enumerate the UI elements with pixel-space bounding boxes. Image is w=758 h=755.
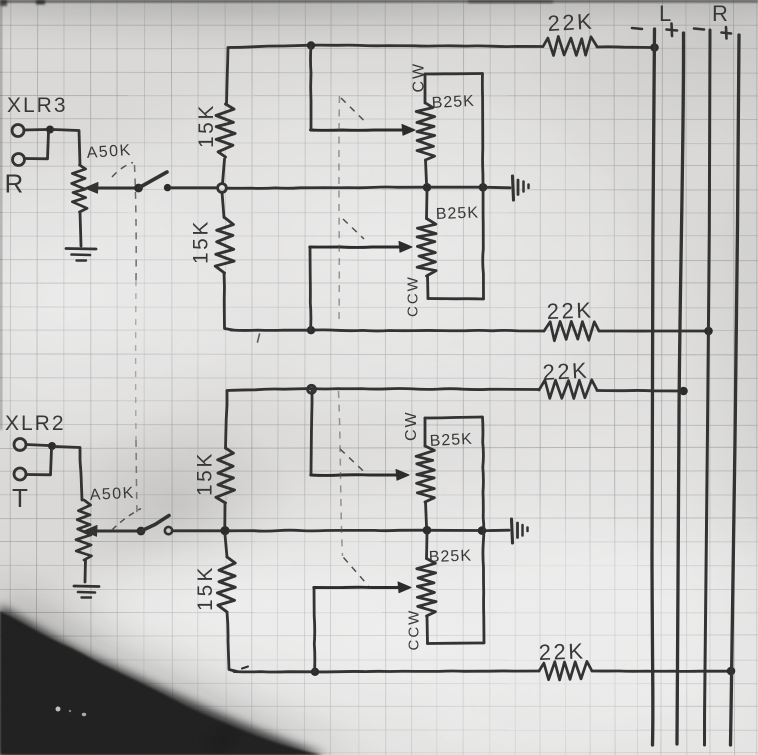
- wire B25K upper CW lead ch1: [424, 74, 427, 103]
- junction dot bottom wire ch1: [307, 326, 315, 334]
- bottom wire ch2: [234, 667, 539, 673]
- switch blade ch2: [140, 516, 169, 532]
- wire pin1 to junction XLR2: [26, 445, 48, 446]
- vertical of wiper feed ch1 corner: [310, 127, 313, 130]
- wire pin1 to junction: [24, 128, 47, 131]
- label B25K upper ch1: [431, 93, 475, 112]
- resistor 15K lower ch2: [217, 557, 235, 612]
- junction dot at XLR2: [48, 442, 56, 450]
- wire node to 15K lower ch1: [222, 192, 224, 217]
- wire top-left corner to 15K upper ch1: [227, 48, 229, 104]
- wire switch to node ch1: [171, 186, 218, 189]
- switch pivot dot ch2: [137, 527, 146, 536]
- resistor 22K top ch2: [539, 380, 597, 399]
- wire to ground rail ch2: [431, 529, 478, 532]
- resistor 22K bottom ch1: [544, 321, 599, 340]
- white speck in shadow 2: [82, 713, 86, 716]
- resistor 15K upper ch2: [216, 448, 235, 503]
- photo shadow soft edge: [0, 605, 327, 755]
- wire 15K upper to node ch2: [223, 503, 226, 527]
- ground symbol A50K ch2: [74, 586, 99, 598]
- wire 22K to bus L+ ch2: [597, 389, 680, 392]
- wire pin2 to junction: [25, 132, 49, 159]
- junction dot B25K middle ch2: [423, 526, 432, 535]
- wiper feed wire lower B25K ch1: [310, 242, 412, 253]
- pot B25K upper body ch1: [416, 103, 435, 160]
- junction dot bottom wire ch2: [311, 668, 319, 676]
- top wire ch2: [227, 388, 539, 390]
- sideways ground symbol ch2: [512, 519, 528, 543]
- junction dot ground rail ch1: [479, 183, 488, 192]
- potentiometer A50K body (ch2): [76, 500, 92, 560]
- bottom wire ch1: [231, 330, 544, 342]
- wire 15K lower to bottom ch2: [227, 612, 237, 672]
- junction dot top wire ch1: [307, 41, 315, 49]
- dashed gang vertical B25K ch2: [339, 391, 343, 556]
- junction dot at XLR3: [46, 126, 54, 134]
- label B25K lower ch1: [436, 205, 480, 223]
- white speck in shadow 3: [69, 710, 71, 712]
- XLR2 pin 2: [14, 468, 26, 480]
- sideways ground symbol ch1: [513, 176, 529, 200]
- label minus (L-): [632, 28, 642, 29]
- junction dot 15K node ch2: [220, 526, 229, 535]
- right rail of B25K block ch2: [483, 417, 485, 643]
- pot B25K lower body ch2: [417, 559, 436, 617]
- page left edge shade: [0, 0, 2, 430]
- wiper feed wire upper B25K ch2: [311, 470, 409, 481]
- dashed diagonal to upper wiper ch2: [340, 449, 367, 474]
- label 15K upper ch1: [195, 103, 218, 148]
- dashed gang arc at A50K switch ch1: [112, 163, 133, 178]
- page corner blob top-left: [0, 0, 7, 6]
- wire CW to right rail ch2: [425, 417, 482, 418]
- wiper arrow A50K ch1: [85, 183, 136, 194]
- dashed gang arc at A50K switch ch2: [112, 509, 141, 531]
- junction dot ground rail ch2: [478, 526, 487, 535]
- potentiometer A50K body (ch1): [72, 165, 87, 212]
- wire CCW lead lower B25K ch2: [426, 616, 429, 644]
- label CW ch1: [411, 62, 428, 93]
- wiper feed wire lower B25K ch2: [314, 582, 411, 593]
- wire middle to B25K lower ch2: [425, 535, 428, 559]
- bus line L- (1st vertical): [652, 29, 655, 745]
- label A50K (ch1): [86, 142, 132, 162]
- dashed diagonal to lower wiper ch2: [344, 558, 369, 587]
- ground symbol A50K ch1: [66, 249, 96, 261]
- wire to ground symbol ch1: [487, 186, 510, 189]
- wire middle to B25K lower ch1: [425, 191, 428, 219]
- switch pivot dot ch1: [134, 184, 143, 193]
- label 22K bottom ch1: [546, 297, 594, 324]
- pot B25K lower body ch1: [417, 219, 436, 277]
- dashed diagonal to lower wiper ch1: [343, 219, 364, 239]
- label B25K lower ch2: [429, 548, 473, 566]
- wire junction down to wiper feed ch1: [309, 46, 312, 129]
- wire pot bottom to ground (ch1): [80, 212, 81, 246]
- junction dot top wire ch2 (open ring): [308, 385, 316, 393]
- wire 22K to bus L-: [597, 45, 651, 49]
- label R (ring): [5, 169, 25, 199]
- label 22K top ch1: [547, 9, 595, 36]
- connector label XLR2: [5, 412, 66, 435]
- pot B25K upper body ch2: [416, 446, 434, 502]
- switch contact open circle ch2: [165, 527, 172, 534]
- wire B25K upper CW lead ch2: [424, 418, 427, 446]
- open node circle (15K junction ch1): [218, 184, 227, 193]
- wiper arrow A50K ch2: [84, 526, 137, 537]
- wire junction to pot A50K top ch2: [55, 447, 82, 501]
- label CCW ch1: [405, 275, 422, 317]
- wire B25K upper to middle ch1: [426, 160, 427, 184]
- page top edge dark strip: [0, 0, 758, 3]
- wire B25K upper to middle ch2: [426, 502, 427, 526]
- label plus (R+): [722, 27, 732, 39]
- label A50K (ch2): [89, 485, 135, 504]
- wire 22K to bus R- ch1: [599, 330, 705, 333]
- wire corner to 15K upper ch2: [226, 391, 228, 448]
- label CCW ch2: [406, 609, 423, 651]
- resistor 15K lower ch1: [215, 218, 234, 274]
- resistor 22K bottom ch2: [539, 661, 592, 680]
- white speck in shadow 1: [56, 707, 61, 712]
- label 22K bottom ch2: [538, 638, 586, 665]
- label R (bus): [712, 1, 729, 26]
- bus line R- (3rd vertical): [705, 30, 711, 745]
- wire bottom of block ch2: [428, 642, 485, 645]
- photo shadow core (black corner): [0, 611, 322, 755]
- resistor 15K upper ch1: [216, 104, 235, 157]
- middle wire ch2 (node to pots): [230, 529, 423, 533]
- wire junction down to wiper feed ch2: [311, 389, 312, 474]
- wire switch to node ch2: [173, 529, 220, 532]
- wiper feed vertical lower B25K ch1: [309, 248, 313, 330]
- XLR3 pin 1: [12, 125, 24, 137]
- junction dot on R+ bus: [727, 667, 736, 676]
- wiper feed wire upper B25K ch1: [311, 125, 416, 136]
- connector label XLR3: [7, 94, 68, 117]
- wire CW to right rail ch1: [425, 72, 482, 75]
- bus line L+ (2nd vertical): [677, 33, 684, 744]
- label plus (L+): [667, 24, 678, 37]
- junction dot on R- bus: [704, 327, 713, 336]
- dashed gang vertical B25K ch1: [338, 96, 341, 321]
- wire 15K lower to bottom ch1: [224, 273, 233, 330]
- wire 15K upper to node ch1: [223, 159, 225, 184]
- wire pot bottom to ground (ch2): [84, 560, 87, 582]
- wire 22K to bus R+ ch2: [592, 670, 727, 673]
- label 15K lower ch2: [194, 565, 217, 611]
- switch contact dot ch1: [164, 184, 171, 191]
- photo shadow halo (bottom-left): [0, 582, 365, 755]
- label B25K upper ch2: [429, 431, 473, 450]
- right rail of B25K block ch1: [482, 74, 483, 299]
- XLR3 pin 2: [13, 154, 25, 166]
- junction dot B25K middle ch1: [423, 183, 432, 192]
- wire to ground rail ch1: [431, 186, 479, 189]
- wire to ground symbol ch2: [487, 529, 510, 532]
- label minus (R-): [694, 29, 704, 30]
- junction dot on L- bus: [650, 43, 659, 52]
- wire CCW lead lower B25K ch1: [426, 276, 429, 299]
- label CW ch2: [403, 410, 420, 441]
- switch blade ch1: [139, 172, 168, 188]
- label 22K top ch2: [542, 358, 590, 385]
- wiper feed vertical lower B25K ch2: [313, 588, 317, 672]
- dashed diagonal to upper wiper ch1: [341, 98, 366, 123]
- top wire ch1: [228, 45, 543, 47]
- label T (tip): [12, 483, 29, 513]
- wire pin2 to junction XLR2: [27, 449, 52, 475]
- junction dot on L+ bus: [679, 387, 688, 396]
- label 15K lower ch1: [190, 219, 213, 264]
- page top edge speck: [36, 0, 45, 5]
- wire junction to pot A50K top: [53, 130, 80, 166]
- dashed gang line between switches: [135, 165, 138, 515]
- resistor 22K top ch1: [543, 36, 597, 55]
- bus line R+ (4th vertical): [731, 35, 740, 745]
- XLR2 pin 1: [14, 439, 26, 451]
- page top edge thick part: [468, 0, 553, 3]
- wire node to 15K lower ch2: [225, 535, 227, 557]
- label L (bus): [659, 1, 673, 26]
- wire bottom of block ch1: [428, 297, 484, 300]
- label 15K upper ch2: [194, 451, 217, 496]
- middle wire ch1 (node to pots): [226, 187, 422, 188]
